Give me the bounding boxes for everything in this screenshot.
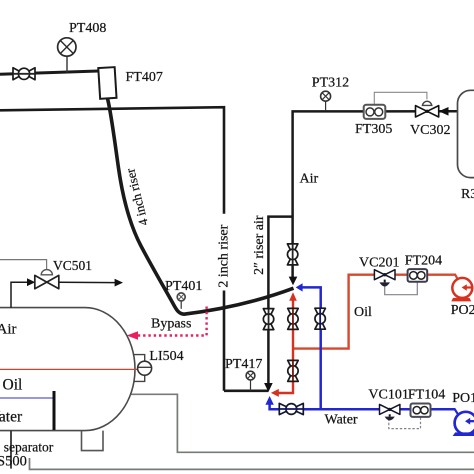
arrow: water into node J2: [265, 396, 273, 405]
flow meter FT407: [98, 67, 116, 99]
svg-text:PT417: PT417: [225, 357, 262, 372]
signal line: VC201 to FT204: [385, 282, 418, 295]
pipe: oil manifold vertical: [278, 295, 293, 393]
arrow: air into node J2: [264, 383, 273, 392]
pipe: bottom flowline: [30, 458, 474, 469]
svg-text:separator: separator: [4, 440, 54, 455]
pipe: 4-inch riser curve and base diagonal to node J1: [108, 99, 294, 315]
svg-text:PT408: PT408: [69, 21, 106, 36]
svg-text:PT401: PT401: [165, 279, 202, 294]
instrument PT417: [246, 371, 255, 391]
pipe: 2-inch riser return (top horizontal + vertical with label gap): [0, 107, 224, 391]
valve: manual valve on 4-inch return: [13, 68, 35, 80]
pipe: water supply from pump PO1: [270, 402, 456, 409]
svg-text:VC302: VC302: [410, 123, 450, 138]
svg-text:Oil: Oil: [3, 377, 23, 394]
valve: hourglass on oil line upper: [288, 308, 299, 329]
svg-text:PO2: PO2: [451, 303, 474, 318]
vessel: 3-phase separator S500 shell: [0, 308, 135, 431]
arrow: vent flow: [115, 279, 123, 287]
svg-text:PO1: PO1: [452, 391, 474, 406]
svg-text:Water: Water: [325, 412, 358, 427]
svg-text:FT204: FT204: [405, 254, 442, 269]
arrow: bypass into separator: [127, 331, 138, 340]
vessel: support leg: [82, 431, 104, 451]
svg-text:PT312: PT312: [312, 76, 349, 91]
instrument PT401: [177, 293, 185, 309]
tank R301 air receiver: [458, 90, 474, 177]
svg-text:2″ riser air: 2″ riser air: [252, 215, 267, 275]
valve VC101: [380, 404, 400, 420]
pipe: oil supply from pump PO2: [293, 275, 456, 349]
pipe: separator gas outlet to VC501: [11, 282, 28, 307]
svg-text:4 inch riser: 4 inch riser: [122, 166, 151, 227]
svg-text:LI504: LI504: [149, 349, 183, 364]
arrow: oil into node J2: [271, 389, 279, 397]
pipe: air header from tank R301 to risers: [293, 111, 458, 280]
valve: hourglass on 2-inch air branch: [263, 309, 274, 330]
svg-text:FT104: FT104: [408, 388, 445, 403]
svg-text:2 inch riser: 2 inch riser: [217, 224, 232, 287]
arrow: water into node J1: [296, 283, 303, 291]
pipe: bypass (red dashed): [137, 307, 207, 336]
instrument LI504 level indicator: [134, 355, 152, 382]
valve: manual valve on water line: [279, 403, 303, 414]
svg-text:Oil: Oil: [354, 305, 372, 320]
arrow: gas flow before VC501: [27, 278, 35, 286]
arrow: air into node J1: [289, 277, 298, 286]
vessel: oil level line: [0, 368, 138, 370]
instrument PT312: [321, 91, 331, 110]
pipe: separator liquid outlet to flowline: [131, 394, 474, 452]
svg-text:VC501: VC501: [53, 258, 92, 273]
svg-text:Air: Air: [300, 172, 319, 187]
arrow: oil into node J1: [289, 292, 297, 301]
arrow: air from tank into VC302: [439, 107, 449, 116]
svg-text:S500: S500: [0, 454, 27, 470]
pump PO1 water: [453, 412, 474, 436]
svg-text:Water: Water: [0, 408, 23, 425]
svg-text:Bypass: Bypass: [151, 316, 191, 331]
signal line: VC501 control: [0, 260, 47, 270]
vessel: weir plate: [53, 391, 56, 430]
valve VC302: [416, 101, 439, 117]
svg-text:VC101: VC101: [368, 387, 408, 402]
svg-text:FT305: FT305: [355, 122, 392, 137]
valve VC501: [35, 270, 59, 289]
vessel: water level line: [0, 397, 53, 399]
svg-text:R301: R301: [461, 187, 474, 202]
flow meter FT305: [364, 105, 386, 119]
valve: hourglass on air line to J1: [287, 244, 298, 265]
svg-text:Air: Air: [0, 322, 17, 338]
valve VC201: [374, 270, 395, 287]
pipe: 2-inch riser base line to node J2 (PT417 line): [224, 389, 268, 392]
flow meter FT104: [411, 404, 431, 417]
pipe: 4-inch riser top return line: [0, 71, 99, 74]
valve: hourglass on water branch: [315, 308, 326, 329]
pump PO2 oil: [451, 278, 472, 302]
flow meter FT204: [408, 269, 428, 282]
svg-text:VC201: VC201: [359, 255, 399, 270]
pipe: water branch to 4-inch riser node J1: [302, 287, 321, 409]
signal line: FT305 to VC302: [374, 92, 427, 104]
pipe: 2-inch riser air branch: [268, 217, 292, 387]
valve: hourglass on oil line lower: [288, 360, 299, 381]
instrument PT408: [58, 38, 76, 73]
pipe: vent line after VC501 with arrow: [59, 281, 115, 283]
signal line: VC101 to FT104 (dashed): [389, 417, 421, 428]
svg-text:FT407: FT407: [126, 70, 163, 85]
vessel: drain line: [10, 431, 12, 469]
